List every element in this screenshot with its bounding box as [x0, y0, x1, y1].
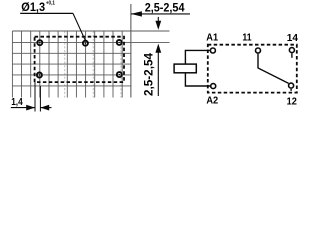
- dimension 2,5-2,54 vertical: down arrow: [155, 17, 161, 30]
- pin 12 terminal circle with stub: [289, 83, 294, 91]
- hole top-right: [117, 40, 122, 45]
- dimension 1,4: dimension line with outside arrows: [11, 105, 52, 111]
- svg-text:Ø1,3: Ø1,3: [21, 0, 45, 14]
- pin 14 terminal circle with stub: [289, 48, 294, 58]
- svg-text:2,5-2,54: 2,5-2,54: [145, 0, 185, 14]
- hole bottom-left: [37, 73, 42, 78]
- pcb grid extra faint dashed verticals: [65, 31, 121, 98]
- hole bottom-right: [117, 72, 122, 77]
- dimension 1,4: extension lines: [35, 82, 40, 111]
- relay body outline (dashed rectangle): [35, 37, 124, 82]
- svg-text:11: 11: [242, 33, 251, 44]
- wire coil top to A1: [185, 50, 209, 64]
- svg-text:2,5-2,54: 2,5-2,54: [142, 53, 156, 96]
- relay schematic outline (dashed box): [208, 45, 297, 93]
- pcb grid last vertical line extended up as extension line: [130, 4, 132, 98]
- dimension 2,5-2,54 vertical: up arrow: [155, 44, 161, 96]
- pin A1 terminal circle: [210, 48, 215, 53]
- hole top-middle: [83, 41, 88, 46]
- svg-text:1,4: 1,4: [11, 96, 23, 108]
- svg-text:A1: A1: [206, 33, 218, 44]
- svg-text:A2: A2: [206, 96, 218, 107]
- hole top-left: [37, 40, 42, 45]
- pcb grid vertical lines: [12, 31, 122, 98]
- svg-text:14: 14: [287, 33, 299, 44]
- pin A2 terminal circle: [211, 84, 216, 89]
- pcb grid horizontal lines (top two extended right as extension lines): [12, 31, 169, 86]
- relay coil: [174, 64, 196, 73]
- svg-text:+0,1: +0,1: [46, 1, 55, 7]
- pin 11 terminal circle: [256, 48, 261, 53]
- contact arm from pin 11 toward pin 12: [258, 54, 289, 84]
- wire coil bottom to A2: [185, 73, 210, 86]
- svg-text:12: 12: [287, 97, 297, 108]
- hole diameter leader line: [20, 13, 85, 40]
- dimension 2,5-2,54 horizontal: dimension line with left arrow: [131, 11, 190, 16]
